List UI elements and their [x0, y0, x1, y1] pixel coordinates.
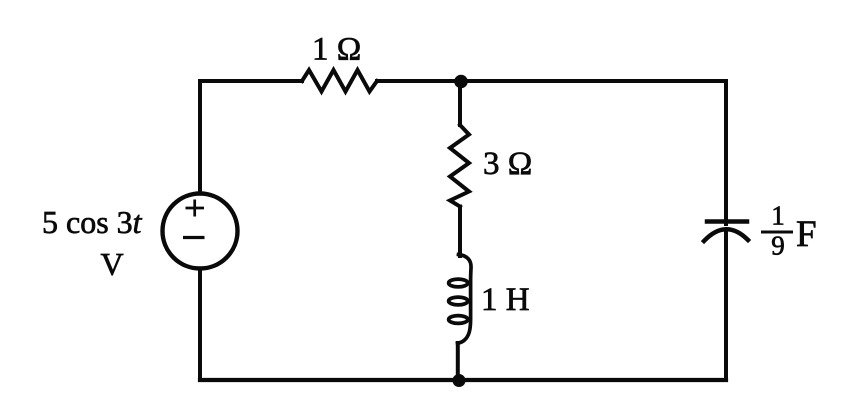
wire left vertical upper	[198, 81, 202, 194]
capacitor C1 top plate	[707, 219, 747, 224]
svg-text:1 Ω: 1 Ω	[312, 32, 361, 68]
svg-text:9: 9	[771, 231, 785, 261]
junction node dot top	[454, 75, 468, 89]
svg-text:1: 1	[771, 201, 785, 231]
wire bottom horizontal	[200, 378, 726, 382]
inductor L1 loop 1	[449, 279, 468, 287]
svg-text:3 Ω: 3 Ω	[483, 146, 532, 182]
wire top-left horizontal	[200, 79, 302, 83]
wire top-right horizontal	[377, 79, 726, 83]
label fraction bar	[761, 231, 793, 234]
capacitor C1 curved bottom plate	[704, 229, 748, 241]
inductor L1 loop 3	[449, 316, 468, 324]
resistor R2 3ohm zigzag	[450, 125, 469, 207]
wire right vertical upper	[724, 81, 728, 224]
voltage source minus sign	[183, 236, 205, 239]
svg-text:V: V	[101, 246, 124, 282]
voltage source plus sign	[186, 200, 205, 217]
resistor R1 1ohm zigzag	[302, 70, 377, 92]
inductor L1 body right-side curve	[458, 255, 472, 344]
svg-text:5 cos 3t: 5 cos 3t	[42, 204, 143, 240]
wire left vertical lower	[198, 269, 202, 381]
wire middle between resistor and inductor	[458, 207, 462, 257]
junction node dot bottom	[453, 374, 466, 387]
svg-text:1 H: 1 H	[481, 282, 530, 318]
inductor L1 loop 2	[449, 297, 468, 305]
wire middle below inductor	[456, 343, 460, 380]
wire right vertical lower	[724, 232, 728, 380]
wire middle vertical upper	[458, 81, 462, 125]
voltage source V1 circle	[163, 194, 238, 269]
svg-text:F: F	[796, 214, 817, 255]
